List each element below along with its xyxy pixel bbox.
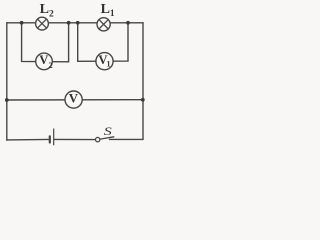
voltmeter V2 xyxy=(36,53,53,70)
battery negative plate (short) xyxy=(49,136,51,142)
lamp L2 xyxy=(36,17,49,30)
junction node: right conductor / V branch xyxy=(141,98,145,102)
lamp L1 xyxy=(97,18,110,31)
wire V2 parallel branch xyxy=(22,23,69,62)
wire voltmeter V branch (middle conductor) xyxy=(7,99,143,101)
battery positive plate (long) xyxy=(53,129,55,145)
junction node: left conductor / V branch xyxy=(5,98,9,102)
svg-text:L1: L1 xyxy=(101,2,115,18)
junction node: top wire / V1 branch right xyxy=(126,21,130,25)
switch S arm xyxy=(100,137,114,139)
wire top conductor xyxy=(7,22,143,24)
junction node: top wire / V2 branch left xyxy=(20,21,24,25)
wire right conductor xyxy=(142,23,144,140)
voltmeter V1 xyxy=(96,53,113,70)
junction node: top wire / V2 branch right xyxy=(67,21,71,25)
svg-text:S: S xyxy=(104,126,112,138)
wire bottom-middle segment (battery to switch) xyxy=(54,138,95,140)
svg-text:V: V xyxy=(69,92,79,106)
switch S pivot contact xyxy=(96,137,100,141)
wire bottom-right segment (switch to right corner) xyxy=(110,138,144,140)
wire V1 parallel branch xyxy=(78,23,128,62)
wire bottom-left segment (left corner to battery) xyxy=(7,138,49,141)
wire left conductor xyxy=(6,23,8,140)
svg-text:L2: L2 xyxy=(40,2,54,19)
junction node: top wire / V1 branch left xyxy=(76,21,80,25)
voltmeter V xyxy=(65,91,82,108)
